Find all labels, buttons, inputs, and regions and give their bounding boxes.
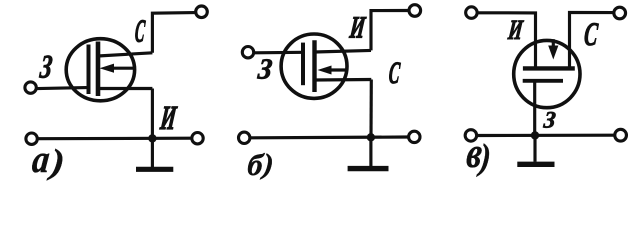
ground lead (circuit v): [533, 135, 536, 161]
ground lead (circuit a): [151, 138, 154, 167]
label б): [246, 147, 275, 182]
label в): [464, 130, 492, 177]
transistor VT2 drain stub (circuit b): [315, 78, 372, 82]
svg-text:а: а: [30, 137, 51, 181]
transistor VT3 envelope (circuit v): [514, 40, 580, 107]
terminal: gate input (circuit b): [242, 47, 253, 58]
svg-text:З: З: [256, 54, 274, 86]
junction: gate/rail (circuit v): [531, 131, 539, 139]
transistor VT2 gate electrode (circuit b): [301, 43, 305, 86]
transistor VT1 envelope (circuit a): [66, 39, 134, 101]
wire: gate electrode down to common rail (circuit v): [533, 81, 536, 136]
svg-text:С: С: [387, 57, 401, 91]
svg-text:И: И: [158, 100, 179, 138]
terminal: rail left (circuit b): [239, 132, 250, 143]
terminal: top right (circuit v): [614, 7, 626, 19]
wire: bottom common rail (circuit v): [478, 134, 614, 137]
transistor VT3 gate electrode (circuit v): [523, 79, 563, 83]
ground (circuit v): [517, 162, 554, 167]
terminal: top left (circuit v): [466, 7, 478, 19]
wire: drain down to common rail (circuit b): [369, 80, 372, 138]
wire: gate input to gate electrode (circuit a): [37, 88, 86, 89]
transistor VT1 substrate arrow (circuit a): [100, 64, 134, 73]
svg-text:С: С: [134, 14, 147, 49]
transistor VT3 channel (circuit v): [523, 66, 575, 70]
wire: drain up to top output (circuit a): [152, 13, 194, 53]
ground (circuit b): [348, 166, 389, 171]
terminal: rail right (circuit a): [192, 133, 203, 144]
wire: gate input to gate electrode (circuit b): [255, 51, 303, 55]
terminal: top output (circuit b): [409, 5, 421, 17]
transistor VT2 substrate arrow (circuit b): [318, 66, 349, 75]
terminal: top output (circuit a): [196, 6, 208, 18]
terminal: gate input (circuit a): [25, 82, 36, 93]
ground lead (circuit b): [369, 137, 372, 166]
transistor VT2 channel (circuit b): [312, 40, 316, 92]
terminal: rail left (circuit a): [26, 133, 37, 144]
svg-text:З: З: [542, 107, 558, 133]
junction: drain/rail (circuit b): [367, 133, 375, 141]
transistor VT3 substrate arrow (circuit v): [548, 39, 558, 59]
svg-text:И: И: [347, 10, 367, 45]
transistor VT2 envelope (circuit b): [281, 34, 347, 98]
transistor VT1 drain stub (circuit a): [98, 53, 152, 56]
terminal: rail left (circuit v): [465, 130, 477, 142]
terminal: rail right (circuit v): [615, 129, 627, 141]
wire: bottom common rail (circuit a): [37, 137, 191, 141]
ground (circuit a): [136, 167, 173, 172]
terminal: rail right (circuit b): [409, 131, 420, 142]
wire: bottom common rail (circuit b): [251, 135, 408, 139]
svg-text:И: И: [506, 15, 525, 46]
label а): [30, 137, 66, 181]
transistor VT2 source stub (circuit b): [315, 50, 372, 52]
wire: top right terminal to drain lead (circuit v): [570, 12, 613, 66]
transistor VT1 gate electrode (circuit a): [87, 45, 91, 95]
svg-text:З: З: [38, 50, 54, 86]
wire: top left terminal to source lead (circuit v): [478, 13, 535, 67]
wire: source up to top output (circuit b): [371, 11, 408, 51]
transistor VT1 source stub (circuit a): [98, 87, 152, 90]
svg-text:С: С: [583, 16, 600, 52]
wire: source down to common rail (circuit a): [151, 89, 154, 139]
junction: source/rail (circuit a): [148, 134, 156, 142]
transistor VT1 channel (circuit a): [96, 42, 101, 97]
